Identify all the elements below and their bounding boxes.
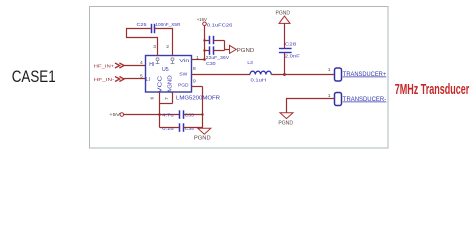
wire +16V down to Vin (204, 26, 206, 60)
port TRANSDUCER- (335, 93, 342, 106)
svg-text:LI: LI (146, 77, 150, 83)
svg-text:7MHz Transducer: 7MHz Transducer (395, 82, 470, 98)
svg-text:2.0nF: 2.0nF (285, 54, 300, 59)
port HF_IN- (115, 77, 124, 82)
svg-text:C30: C30 (206, 61, 216, 66)
pin glyph top-left inside U5 (156, 58, 160, 64)
svg-text:SW: SW (179, 72, 188, 77)
svg-text:22uF_36V: 22uF_36V (206, 55, 230, 60)
svg-text:C25: C25 (137, 22, 148, 27)
power flag PGND bottom-right (280, 113, 293, 119)
power flag PGND right-pointing (230, 45, 237, 53)
wire C25 right to pin2 (155, 29, 173, 56)
svg-text:PGD: PGD (178, 83, 189, 88)
svg-text:U5: U5 (162, 67, 169, 73)
wire C30 row (205, 50, 210, 52)
svg-text:4: 4 (140, 60, 143, 66)
wire C26 row (205, 40, 210, 42)
svg-text:PGND: PGND (194, 136, 211, 142)
svg-text:0.1uH: 0.1uH (251, 77, 267, 82)
svg-text:C33: C33 (185, 113, 195, 118)
capacitor C28 (279, 48, 292, 50)
svg-text:Vin: Vin (179, 58, 190, 63)
svg-text:8: 8 (193, 66, 196, 72)
svg-text:VCC: VCC (158, 75, 164, 93)
svg-text:HF_IN-: HF_IN- (94, 77, 115, 83)
svg-text:PGND: PGND (276, 10, 291, 16)
capacitor C26 (209, 36, 211, 44)
wire L3 to TRANSDUCER+ (271, 74, 334, 76)
svg-text:AGND: AGND (168, 75, 174, 93)
wire caps right vertical (224, 41, 226, 51)
junction C33 right (201, 113, 203, 115)
svg-text:LMG5200MOFR: LMG5200MOFR (176, 95, 220, 101)
svg-text:5: 5 (140, 74, 143, 80)
capacitor C34 (179, 123, 181, 132)
pin glyph top-right inside U5 (171, 58, 175, 64)
junction +5V rail (158, 113, 161, 116)
svg-text:2: 2 (166, 44, 169, 50)
svg-text:7: 7 (164, 97, 170, 100)
svg-text:0.1uFC26: 0.1uFC26 (207, 23, 233, 28)
wire C28 to node (284, 53, 286, 75)
svg-text:PGND: PGND (278, 121, 293, 127)
power flag +5V (120, 113, 124, 117)
svg-text:C28: C28 (285, 42, 297, 47)
wire TRANSDUCER- to PGND (287, 99, 335, 113)
port TRANSDUCER+ (335, 68, 342, 81)
svg-text:100nF_X5R: 100nF_X5R (155, 22, 181, 27)
wire Vin pin1 (192, 59, 205, 61)
svg-text:4.7u: 4.7u (162, 113, 174, 118)
svg-text:6: 6 (150, 97, 156, 100)
junction C26 left (203, 39, 205, 41)
svg-text:3: 3 (153, 44, 156, 50)
svg-text:L3: L3 (247, 60, 253, 65)
capacitor C33 (179, 110, 181, 119)
port HF_IN+ (115, 63, 124, 68)
junction C30 left (203, 49, 205, 51)
svg-text:9: 9 (193, 79, 196, 85)
svg-text:0.1u: 0.1u (162, 126, 174, 131)
capacitor C30 (209, 46, 211, 54)
junction node SW/C28 (283, 73, 286, 76)
inductor L3 (250, 71, 271, 74)
wire pin9 PGND down (192, 86, 203, 88)
svg-text:+5V: +5V (109, 112, 121, 118)
power flag +16V (203, 22, 207, 26)
svg-text:1: 1 (196, 55, 199, 61)
svg-text:CASE1: CASE1 (12, 68, 56, 86)
wire SW pin8 to L3 (192, 74, 251, 76)
power flag PGND top (279, 16, 290, 23)
wire C33 right (184, 114, 203, 116)
power flag PGND bottom-mid (198, 128, 211, 134)
IC U5 body (146, 56, 192, 93)
junction Vin/+16V (203, 58, 206, 61)
svg-text:HI: HI (149, 62, 154, 68)
svg-text:1: 1 (328, 67, 331, 73)
wire +5V rail (124, 114, 180, 116)
capacitor C25 (151, 24, 153, 33)
sheet frame (90, 7, 389, 149)
wire HF_IN+ to pin4 (124, 65, 145, 67)
wire C25 left to pin3 (127, 29, 158, 56)
svg-text:C34: C34 (185, 126, 195, 131)
svg-text:PGND: PGND (237, 48, 254, 54)
svg-text:HF_IN+: HF_IN+ (94, 63, 115, 69)
wire pins 6,7 to +5V rail (159, 92, 161, 104)
wire HF_IN- to pin5 (124, 78, 145, 80)
wire PGND to C28 (284, 23, 286, 48)
wire C34 row (160, 127, 180, 129)
